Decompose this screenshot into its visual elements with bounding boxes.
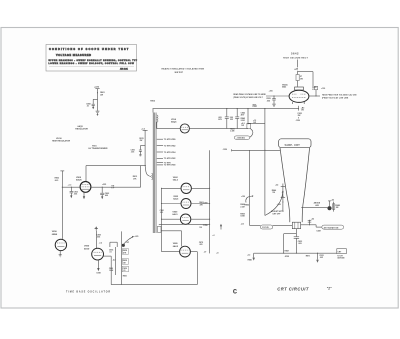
label hv regulator (52, 138, 71, 143)
svg-text:.005: .005 (97, 237, 101, 239)
svg-text:HIGH VACUUM RECT: HIGH VACUUM RECT (283, 57, 308, 60)
svg-text:5642: 5642 (291, 51, 299, 55)
svg-text:1W: 1W (300, 78, 303, 80)
note heavily insulated (162, 68, 205, 74)
svg-text:+8: +8 (216, 252, 218, 254)
svg-text:2W: 2W (140, 140, 143, 142)
svg-text:+225: +225 (94, 87, 100, 89)
svg-text:6AL5: 6AL5 (173, 198, 179, 201)
left rail +66.5 (55, 171, 65, 239)
svg-text:1W: 1W (301, 110, 304, 112)
pot -1350 adj pill (234, 129, 253, 140)
pot astigmatism pill (322, 225, 344, 229)
svg-text:5642: 5642 (282, 86, 286, 89)
node -1350 below rectifier (295, 106, 304, 122)
svg-text:CRT CIRCUIT: CRT CIRCUIT (277, 286, 309, 291)
svg-text:+225: +225 (102, 184, 106, 186)
resistor R801 (100, 92, 105, 96)
rectifier tube V822 (289, 90, 309, 104)
svg-text:FOCUS: FOCUS (262, 227, 269, 229)
svg-text:66.5: 66.5 (55, 180, 59, 182)
svg-text:HV TRANSFORMER: HV TRANSFORMER (89, 147, 108, 150)
heater winding taps (157, 139, 177, 167)
CRT V859 (279, 139, 311, 222)
svg-text:6AQ5: 6AQ5 (171, 121, 177, 124)
svg-text:READ PEAK VOLTAGE LINE TO HERE: READ PEAK VOLTAGE LINE TO HERE (233, 93, 266, 96)
svg-text:.005: .005 (266, 100, 270, 102)
capacitor C808 (86, 99, 97, 109)
tube V852 (161, 196, 210, 209)
wire top cap jumper (298, 72, 313, 87)
wire base bottom network (284, 229, 303, 254)
wire anode line (301, 202, 327, 208)
wire V800 grid left (62, 184, 80, 187)
svg-text:1W: 1W (241, 125, 244, 127)
note box: conditions of scope under test (46, 45, 138, 72)
svg-text:.001: .001 (160, 212, 163, 214)
svg-text:R867: R867 (285, 251, 289, 253)
svg-text:-4.2: -4.2 (112, 258, 115, 261)
capacitor C839 (266, 96, 276, 104)
svg-text:TO HTR V822: TO HTR V822 (164, 158, 176, 160)
tube V800 (76, 177, 91, 192)
svg-text:6AU5: 6AU5 (76, 179, 82, 182)
power arrow (220, 224, 222, 230)
note take peak reading (322, 93, 357, 99)
svg-text:.005: .005 (320, 257, 323, 259)
tube V859 (160, 210, 211, 225)
svg-text:.005: .005 (199, 244, 202, 246)
wire rectifier cathode out (309, 86, 320, 96)
intensity rail (122, 231, 139, 284)
svg-text:+97: +97 (126, 242, 129, 244)
svg-text:+150: +150 (277, 204, 281, 206)
ground (272, 104, 276, 106)
ground cathode V800 (83, 192, 85, 199)
svg-text:TO HTR V800: TO HTR V800 (164, 165, 176, 167)
svg-text:(PEAK VOLTS) AT LOW LINE: (PEAK VOLTS) AT LOW LINE (322, 96, 349, 99)
svg-text:VOLTAGE MEASURED: VOLTAGE MEASURED (56, 54, 92, 57)
svg-text:600: 600 (105, 195, 108, 197)
svg-text:c: c (233, 286, 238, 295)
svg-text:6AU5: 6AU5 (173, 245, 179, 248)
transformer T801 core (154, 113, 158, 234)
svg-text:-1350 ADJ: -1350 ADJ (236, 137, 245, 140)
svg-text:2W: 2W (298, 115, 301, 117)
svg-text:R871: R871 (306, 255, 310, 257)
svg-text:.01: .01 (86, 105, 89, 107)
switch contact bracket (109, 242, 117, 275)
svg-text:+63: +63 (241, 223, 244, 225)
svg-text:TIME BASE OSCILLATOR: TIME BASE OSCILLATOR (66, 290, 111, 293)
wire feedback line (157, 122, 248, 129)
svg-text:TO HTR V859: TO HTR V859 (164, 139, 176, 141)
wire winding return (157, 224, 210, 247)
capacitor C815 (131, 146, 146, 156)
transformer primary winding (133, 166, 153, 181)
svg-text:-1350: -1350 (222, 149, 227, 151)
svg-text:HIGH REGULATOR: HIGH REGULATOR (52, 139, 71, 142)
svg-text:R862: R862 (245, 205, 249, 207)
node +27 (294, 69, 299, 74)
svg-text:R851: R851 (123, 275, 127, 277)
svg-text:UPPER READINGS - SWEEP NORMALL: UPPER READINGS - SWEEP NORMALLY RUNNING,… (49, 59, 138, 62)
svg-text:(PEAK VOLTS) AT MAX LINE VOLT: (PEAK VOLTS) AT MAX LINE VOLT (233, 96, 263, 99)
wire V800 plate to transformer (86, 166, 146, 188)
pot focus pill (260, 225, 273, 229)
+225 supply node (94, 87, 100, 111)
svg-text:2W: 2W (100, 94, 103, 96)
resistor R842 branch (241, 109, 257, 128)
svg-text:6AL5: 6AL5 (173, 179, 179, 182)
label regulator V867 (75, 125, 88, 130)
test point label (253, 104, 258, 108)
tube V880 (162, 242, 219, 257)
svg-text:V855: V855 (84, 246, 90, 248)
svg-text:100K: 100K (109, 270, 114, 272)
svg-text:-1350: -1350 (295, 120, 300, 122)
svg-text:+225: +225 (134, 236, 138, 238)
svg-text:+52: +52 (311, 218, 314, 220)
svg-text:TO HTR V814: TO HTR V814 (164, 151, 177, 154)
box hv adj (247, 123, 251, 128)
svg-text:TO CRT: TO CRT (337, 256, 343, 258)
svg-text:+1.3: +1.3 (68, 184, 72, 186)
node +6.3 primary supply (139, 128, 147, 165)
svg-text:TEST: TEST (253, 104, 257, 106)
svg-text:HEAVILY INSULATED / ISOLATED I: HEAVILY INSULATED / ISOLATED ITEM (162, 68, 205, 71)
svg-text:-3.2: -3.2 (99, 242, 102, 244)
svg-text:6AL5: 6AL5 (172, 213, 178, 216)
svg-text:V800: V800 (76, 177, 82, 179)
tube column rails (161, 188, 163, 251)
svg-text:REGULATOR: REGULATOR (75, 128, 88, 131)
wire -1350 to CRT (222, 149, 280, 152)
CRT base (292, 222, 300, 229)
svg-text:+62: +62 (275, 185, 278, 187)
wire V855 out right (104, 256, 116, 261)
capacitor C840 (218, 109, 229, 129)
svg-text:“2”: “2” (327, 287, 332, 291)
svg-text:2.2M: 2.2M (240, 206, 245, 208)
svg-text:.01: .01 (123, 270, 125, 272)
svg-text:-1350: -1350 (203, 225, 208, 227)
rail -1350 right of tubes (199, 150, 214, 253)
svg-text:+62: +62 (331, 199, 334, 201)
wire V880 to bottom bus (196, 252, 198, 285)
svg-text:-27: -27 (204, 251, 207, 253)
svg-text:+130: +130 (321, 88, 325, 90)
wire base left with focus pill (250, 224, 293, 226)
svg-text:SEE TEXT: SEE TEXT (175, 72, 184, 74)
CRT grid lead (271, 184, 285, 216)
anode connector dot (327, 199, 334, 210)
svg-text:ASTIGMATISM: ASTIGMATISM (324, 226, 339, 229)
svg-text:CONDITIONS OF SCOPE UNDER TEST: CONDITIONS OF SCOPE UNDER TEST (49, 48, 129, 51)
svg-text:AB 2-61: AB 2-61 (120, 67, 129, 70)
op-amp tube V814 (171, 118, 189, 133)
svg-text:TAKE PEAK HIGH VOLTAGE CAL USE: TAKE PEAK HIGH VOLTAGE CAL USE (322, 93, 357, 96)
pot wiper R862 (245, 195, 254, 206)
svg-text:+2: +2 (212, 235, 214, 237)
tube V862 (161, 177, 210, 193)
wire to -1350 adj (230, 123, 265, 132)
capacitor C841 (230, 109, 239, 129)
tube V855 (84, 246, 104, 260)
connector box right (337, 249, 347, 260)
svg-text:CRT OFF: CRT OFF (272, 214, 281, 216)
node bus left end (247, 253, 255, 261)
svg-text:+100: +100 (269, 90, 273, 92)
svg-text:6DJ8: 6DJ8 (84, 248, 90, 250)
CRT left feed rail (240, 150, 249, 225)
svg-text:POINT: POINT (253, 106, 258, 108)
ground drop on bus (316, 253, 323, 263)
wire bottom bus (111, 256, 197, 285)
tube V856 (52, 231, 67, 257)
wire focus divider rail (265, 109, 284, 216)
svg-text:2.2M: 2.2M (230, 131, 235, 133)
labels right of tube cap (312, 87, 325, 91)
svg-text:ADJ: ADJ (315, 204, 319, 207)
svg-text:LOWER READINGS - SWEEP HOLDOFF: LOWER READINGS - SWEEP HOLDOFF, CONTROL … (49, 62, 135, 65)
capacitor C802 (70, 187, 78, 198)
rectifier tube V822 label (283, 51, 308, 67)
tube top cap (282, 84, 303, 91)
wire into rectifier anode (266, 90, 289, 96)
wire main HV bus (150, 100, 298, 112)
svg-text:5ABP- CRT: 5ABP- CRT (285, 144, 301, 147)
svg-text:2.2M: 2.2M (241, 120, 246, 122)
svg-text:2W: 2W (230, 119, 233, 121)
ground (96, 111, 100, 116)
svg-text:R840: R840 (248, 258, 252, 261)
svg-text:.005: .005 (74, 194, 78, 196)
svg-text:100K: 100K (96, 273, 101, 275)
cathode resistor ground (96, 260, 101, 275)
svg-text:6BN8: 6BN8 (52, 234, 58, 236)
svg-text:+150: +150 (241, 196, 245, 198)
svg-text:.01: .01 (109, 252, 111, 254)
note read peak voltage (233, 93, 266, 99)
wire CRT bottom bus (254, 251, 337, 258)
svg-text:C847: C847 (316, 229, 320, 232)
svg-text:.005: .005 (298, 243, 302, 245)
svg-text:470K: 470K (285, 255, 290, 258)
label T801 hv transformer (89, 146, 108, 151)
supply node above V855 (95, 226, 102, 248)
svg-text:100K: 100K (240, 216, 245, 218)
capacitor C803 (100, 187, 109, 199)
svg-text:27: 27 (312, 89, 314, 91)
resistor R822 (296, 75, 303, 87)
svg-text:TO HTR V852: TO HTR V852 (164, 145, 176, 147)
wire V800 screen right (91, 184, 141, 189)
svg-text:.005: .005 (131, 151, 134, 153)
svg-text:R806: R806 (150, 100, 155, 102)
svg-text:+12: +12 (247, 255, 250, 257)
resistor R848 (333, 202, 340, 212)
wire base right (301, 218, 322, 232)
